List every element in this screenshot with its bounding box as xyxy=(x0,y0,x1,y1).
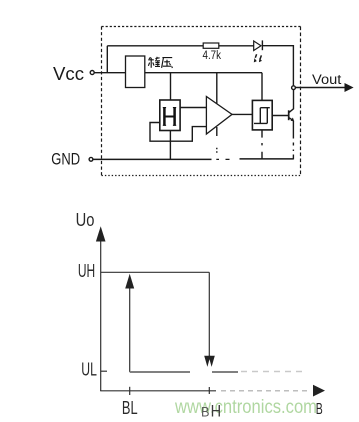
svg-text:www.cntronics.com: www.cntronics.com xyxy=(174,397,317,418)
wire Hall to op-amp plus input xyxy=(180,107,206,109)
tick BL on axis xyxy=(129,387,131,395)
arrowhead up at BL xyxy=(125,274,134,289)
terminal GND pin circle xyxy=(89,157,93,161)
wire resistor to diode xyxy=(219,45,254,47)
svg-text:UL: UL xyxy=(81,360,97,380)
arrowhead Vout xyxy=(345,83,354,92)
resistor 4.7k body xyxy=(203,43,219,48)
wire schmitt output to transistor base xyxy=(272,115,289,117)
wire top supply rail xyxy=(107,45,203,47)
line UL level (gray, broken by watermark) xyxy=(130,371,190,373)
svg-text:Vout: Vout xyxy=(312,72,342,87)
diode D1 (LED) xyxy=(254,41,261,51)
wire drop to schmitt trigger xyxy=(261,73,263,101)
tick BH on axis xyxy=(208,387,210,394)
axis Y xyxy=(100,240,102,391)
hysteresis symbol xyxy=(254,108,270,124)
line BH falling vertical xyxy=(208,272,210,356)
schmitt trigger box xyxy=(252,100,272,129)
svg-text:GND: GND xyxy=(51,150,80,169)
wire diode to corner and drop to output node xyxy=(262,46,293,86)
wire Hall to ground xyxy=(169,131,171,160)
op-amp U1 xyxy=(206,97,232,135)
wire riser to top rail xyxy=(106,46,108,73)
svg-text:4.7k: 4.7k xyxy=(203,50,222,62)
line BL rising vertical xyxy=(129,287,131,372)
wire op-amp output xyxy=(232,113,252,115)
wire Hall feedback loop to op-amp minus input xyxy=(150,123,206,142)
wire Vcc rail inside IC xyxy=(145,72,262,74)
regulator block xyxy=(126,56,145,88)
terminal Vcc pin circle xyxy=(90,71,94,75)
wire op-amp bottom supply (broken by watermark) xyxy=(216,127,218,136)
double arrowhead down at BH xyxy=(204,356,210,367)
wire schmitt to ground (broken by watermark) xyxy=(261,130,263,138)
tick UL on axis xyxy=(101,370,107,372)
Hall element box xyxy=(160,100,180,131)
wire Vout xyxy=(295,87,345,89)
wire drop op-amp supply xyxy=(216,73,218,104)
IC dashed boundary box xyxy=(102,26,301,28)
axis X (partly faded) xyxy=(100,390,216,392)
line UH level xyxy=(101,271,210,273)
wire ground rail (broken by watermark) xyxy=(93,158,212,160)
transistor Q1 xyxy=(288,110,290,120)
svg-text:B: B xyxy=(201,404,210,419)
svg-text:Vcc: Vcc xyxy=(53,64,84,84)
label H xyxy=(163,108,176,126)
svg-text:B: B xyxy=(316,401,323,418)
svg-text:Uo: Uo xyxy=(76,210,95,230)
node output junction xyxy=(292,86,296,90)
wire Vcc input xyxy=(94,72,125,74)
LED emission arrows xyxy=(255,54,256,58)
label 稳压 (drawn strokes) xyxy=(148,57,172,68)
wire drop to Hall element xyxy=(170,73,172,100)
svg-text:H: H xyxy=(211,403,222,421)
svg-text:BL: BL xyxy=(122,398,138,418)
svg-text:UH: UH xyxy=(78,261,95,281)
